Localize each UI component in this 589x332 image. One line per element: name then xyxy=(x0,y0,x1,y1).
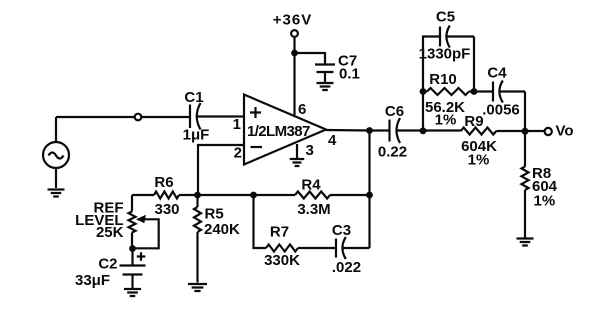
wire xyxy=(423,37,440,131)
svg-text:2: 2 xyxy=(234,145,242,162)
svg-text:330: 330 xyxy=(154,201,179,218)
pot wiper arrow xyxy=(135,215,159,249)
terminal +36V xyxy=(291,30,298,37)
wire xyxy=(56,116,135,118)
ground xyxy=(517,239,534,246)
svg-text:0.1: 0.1 xyxy=(339,66,360,83)
svg-text:1%: 1% xyxy=(435,112,457,129)
capacitor C4 xyxy=(493,81,525,129)
node: input terminal xyxy=(135,114,142,121)
svg-text:.022: .022 xyxy=(332,259,361,276)
wire xyxy=(496,130,547,132)
wire xyxy=(254,195,267,248)
svg-text:C5: C5 xyxy=(436,9,455,26)
svg-text:1%: 1% xyxy=(534,193,556,210)
capacitor C6 xyxy=(390,118,461,143)
wire xyxy=(326,129,389,132)
wire xyxy=(295,53,326,64)
node xyxy=(366,127,373,134)
svg-text:C3: C3 xyxy=(332,222,351,239)
svg-text:1330pF: 1330pF xyxy=(419,46,471,63)
svg-text:R5: R5 xyxy=(205,206,224,223)
wire xyxy=(55,117,57,142)
wire xyxy=(198,145,244,194)
svg-text:C4: C4 xyxy=(487,65,507,82)
wire xyxy=(141,116,189,118)
node xyxy=(471,88,478,95)
svg-text:240K: 240K xyxy=(204,221,240,238)
svg-text:1: 1 xyxy=(233,116,241,133)
svg-text:R6: R6 xyxy=(154,174,173,191)
svg-text:3.3M: 3.3M xyxy=(297,201,330,218)
svg-text:R4: R4 xyxy=(301,177,321,194)
resistor R5 xyxy=(194,195,201,283)
ground xyxy=(48,168,65,197)
capacitor C2 polarity + xyxy=(137,252,146,260)
svg-text:C1: C1 xyxy=(184,89,203,106)
svg-text:1/2LM387: 1/2LM387 xyxy=(247,123,310,140)
ground xyxy=(317,83,334,90)
node xyxy=(522,128,529,135)
op-amp - input mark xyxy=(251,146,263,148)
wire xyxy=(473,37,475,92)
svg-text:1μF: 1μF xyxy=(183,127,210,144)
svg-text:4: 4 xyxy=(328,132,337,149)
svg-text:25K: 25K xyxy=(96,224,124,241)
svg-text:R7: R7 xyxy=(270,224,289,241)
node xyxy=(420,88,427,95)
svg-text:3: 3 xyxy=(306,142,314,159)
resistor R6 xyxy=(132,192,198,199)
wire xyxy=(198,194,254,196)
svg-text:R10: R10 xyxy=(429,71,457,88)
op-amp U1 1/2LM387 xyxy=(244,95,326,165)
ground xyxy=(124,289,141,296)
capacitor C2 xyxy=(120,249,146,289)
terminal Vo xyxy=(545,128,552,135)
svg-text:6: 6 xyxy=(298,101,306,118)
svg-text:1%: 1% xyxy=(468,152,490,169)
node xyxy=(129,245,136,252)
node xyxy=(420,127,427,134)
svg-text:C6: C6 xyxy=(385,103,404,120)
node xyxy=(366,192,373,199)
svg-text:C2: C2 xyxy=(98,256,117,273)
svg-text:33μF: 33μF xyxy=(75,272,110,289)
ground xyxy=(290,159,304,166)
capacitor C7 xyxy=(315,65,335,83)
resistor R8 xyxy=(522,131,529,238)
svg-text:330K: 330K xyxy=(264,252,300,269)
capacitor C3 xyxy=(336,237,370,259)
capacitor C5 xyxy=(440,26,474,48)
wire xyxy=(293,38,295,116)
op-amp + input mark xyxy=(250,107,261,118)
node xyxy=(194,192,201,199)
wire xyxy=(368,131,370,249)
svg-text:.0056: .0056 xyxy=(482,102,520,119)
resistor R9 xyxy=(461,128,497,135)
resistor R10 xyxy=(423,88,493,95)
potentiometer REF LEVEL 25K xyxy=(129,195,136,249)
resistor R4 xyxy=(254,192,370,199)
capacitor C1 xyxy=(190,103,244,130)
wire xyxy=(296,144,298,158)
svg-text:Vo: Vo xyxy=(556,123,574,140)
node xyxy=(291,50,298,57)
svg-text:+36V: +36V xyxy=(273,12,312,29)
node xyxy=(250,192,257,199)
resistor R7 xyxy=(266,245,336,252)
signal source VIN xyxy=(43,142,69,168)
ground xyxy=(188,284,207,291)
svg-text:0.22: 0.22 xyxy=(378,144,407,161)
svg-text:R9: R9 xyxy=(464,113,483,130)
